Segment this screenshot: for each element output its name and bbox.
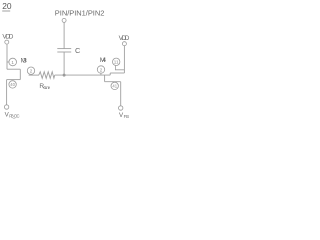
svg-text:FB: FB bbox=[124, 114, 130, 119]
circled numeral 11 on M4 drain wire bbox=[113, 58, 120, 65]
svg-text:11: 11 bbox=[114, 60, 119, 65]
svg-text:ctune: ctune bbox=[43, 85, 51, 90]
wire M4 drain jog horizontal bbox=[110, 72, 124, 74]
wire VDD left down bbox=[6, 44, 8, 69]
terminal VFB right bbox=[119, 106, 123, 110]
svg-text:M4: M4 bbox=[100, 57, 107, 64]
terminal VFB_DC left bbox=[4, 105, 8, 109]
wire M4 jog vertical bbox=[109, 73, 111, 75]
wire bottom-left horizontal bbox=[7, 79, 21, 81]
leader stub numeral 2 right bbox=[100, 73, 102, 75]
wire bottom bus right segment bbox=[55, 74, 110, 76]
node VFB_DC label bbox=[5, 111, 20, 118]
svg-text:1: 1 bbox=[11, 60, 14, 65]
svg-text:41: 41 bbox=[112, 84, 117, 89]
capacitor C bbox=[57, 49, 71, 52]
wire M3 drain jog horizontal bbox=[7, 68, 20, 70]
wire bottom bus left segment bbox=[29, 74, 39, 76]
svg-text:VDD: VDD bbox=[119, 35, 130, 42]
wire down to VFB_DC terminal bbox=[6, 80, 8, 105]
wire M3 jog vertical bbox=[19, 69, 21, 79]
svg-text:PIN/PIN1/PIN2: PIN/PIN1/PIN2 bbox=[55, 9, 105, 18]
resistor R_ctune zigzag bbox=[39, 72, 55, 79]
circled numeral 2 right on bus bbox=[97, 66, 104, 73]
svg-text:2: 2 bbox=[100, 67, 103, 72]
node VFB right label bbox=[119, 112, 129, 119]
terminal PIN bbox=[62, 18, 66, 22]
svg-text:VDD: VDD bbox=[2, 34, 13, 41]
leader stub numeral 2 left bbox=[30, 73, 32, 76]
junction dot at capacitor/bus node bbox=[63, 74, 66, 77]
svg-text:40: 40 bbox=[10, 82, 15, 87]
wire down to VFB right terminal bbox=[120, 82, 122, 106]
circled numeral 41 bottom right bbox=[111, 82, 118, 89]
figure label 20 bbox=[2, 1, 12, 11]
svg-text:20: 20 bbox=[2, 1, 12, 11]
wire horizontal to numeral 41 bbox=[105, 81, 121, 83]
wire branch below bus right bbox=[104, 75, 106, 82]
terminal VDD right bbox=[122, 42, 126, 46]
wire capacitor to bottom bus bbox=[63, 52, 65, 75]
leader stub numeral 1 left bbox=[7, 61, 9, 63]
wire PIN to capacitor bbox=[63, 23, 65, 49]
svg-text:M3: M3 bbox=[21, 57, 28, 64]
terminal VDD left bbox=[5, 40, 9, 44]
leader stub numeral 11 right bbox=[115, 66, 124, 70]
circled numeral 2 left on bus bbox=[27, 67, 34, 74]
svg-text:C: C bbox=[75, 46, 81, 55]
svg-text:FB_DC: FB_DC bbox=[9, 113, 19, 118]
value label R_ctune bbox=[39, 83, 50, 90]
wire VDD right down bbox=[123, 46, 125, 73]
circled numeral 40 bottom left bbox=[9, 81, 16, 88]
svg-text:2: 2 bbox=[30, 69, 33, 74]
circled numeral 1 on M3 drain wire bbox=[9, 58, 17, 66]
